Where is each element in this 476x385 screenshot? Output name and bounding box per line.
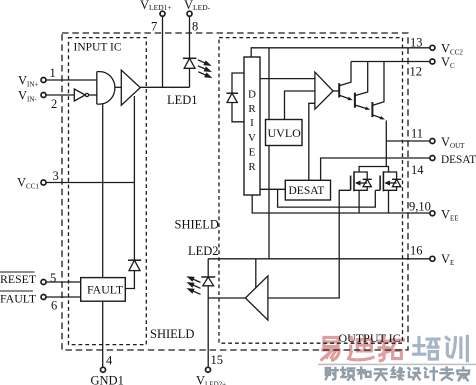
svg-text:14: 14 (411, 163, 424, 177)
svg-text:15: 15 (211, 353, 224, 367)
svg-text:SHIELD: SHIELD (175, 218, 219, 232)
svg-text:D: D (248, 89, 256, 101)
svg-text:7: 7 (151, 20, 157, 34)
svg-text:11: 11 (411, 127, 423, 141)
svg-text:8: 8 (192, 20, 198, 34)
svg-text:LED1: LED1 (167, 93, 198, 107)
svg-text:13: 13 (410, 36, 423, 50)
svg-text:6: 6 (51, 299, 57, 313)
svg-text:12: 12 (410, 65, 423, 79)
svg-text:E: E (249, 147, 256, 159)
svg-text:UVLO: UVLO (268, 126, 302, 140)
svg-text:4: 4 (106, 354, 113, 368)
svg-text:5: 5 (50, 271, 56, 285)
svg-text:FAULT: FAULT (0, 292, 37, 306)
svg-text:SHIELD: SHIELD (150, 327, 194, 341)
svg-text:DESAT: DESAT (289, 185, 325, 197)
svg-text:DESAT: DESAT (441, 154, 476, 166)
svg-text:OUTPUT IC: OUTPUT IC (339, 331, 401, 345)
svg-text:R: R (248, 161, 256, 173)
svg-text:3: 3 (53, 169, 59, 183)
svg-text:V: V (248, 132, 256, 144)
svg-text:I: I (250, 117, 254, 129)
svg-text:1: 1 (50, 66, 56, 80)
svg-text:9,10: 9,10 (409, 200, 431, 214)
svg-text:2: 2 (51, 97, 57, 111)
svg-text:FAULT: FAULT (87, 283, 124, 297)
svg-text:INPUT IC: INPUT IC (74, 42, 122, 54)
svg-text:16: 16 (410, 244, 423, 258)
svg-text:RESET: RESET (0, 272, 37, 286)
svg-text:LED2: LED2 (188, 244, 219, 258)
svg-text:GND1: GND1 (91, 374, 124, 385)
svg-text:R: R (248, 103, 256, 115)
